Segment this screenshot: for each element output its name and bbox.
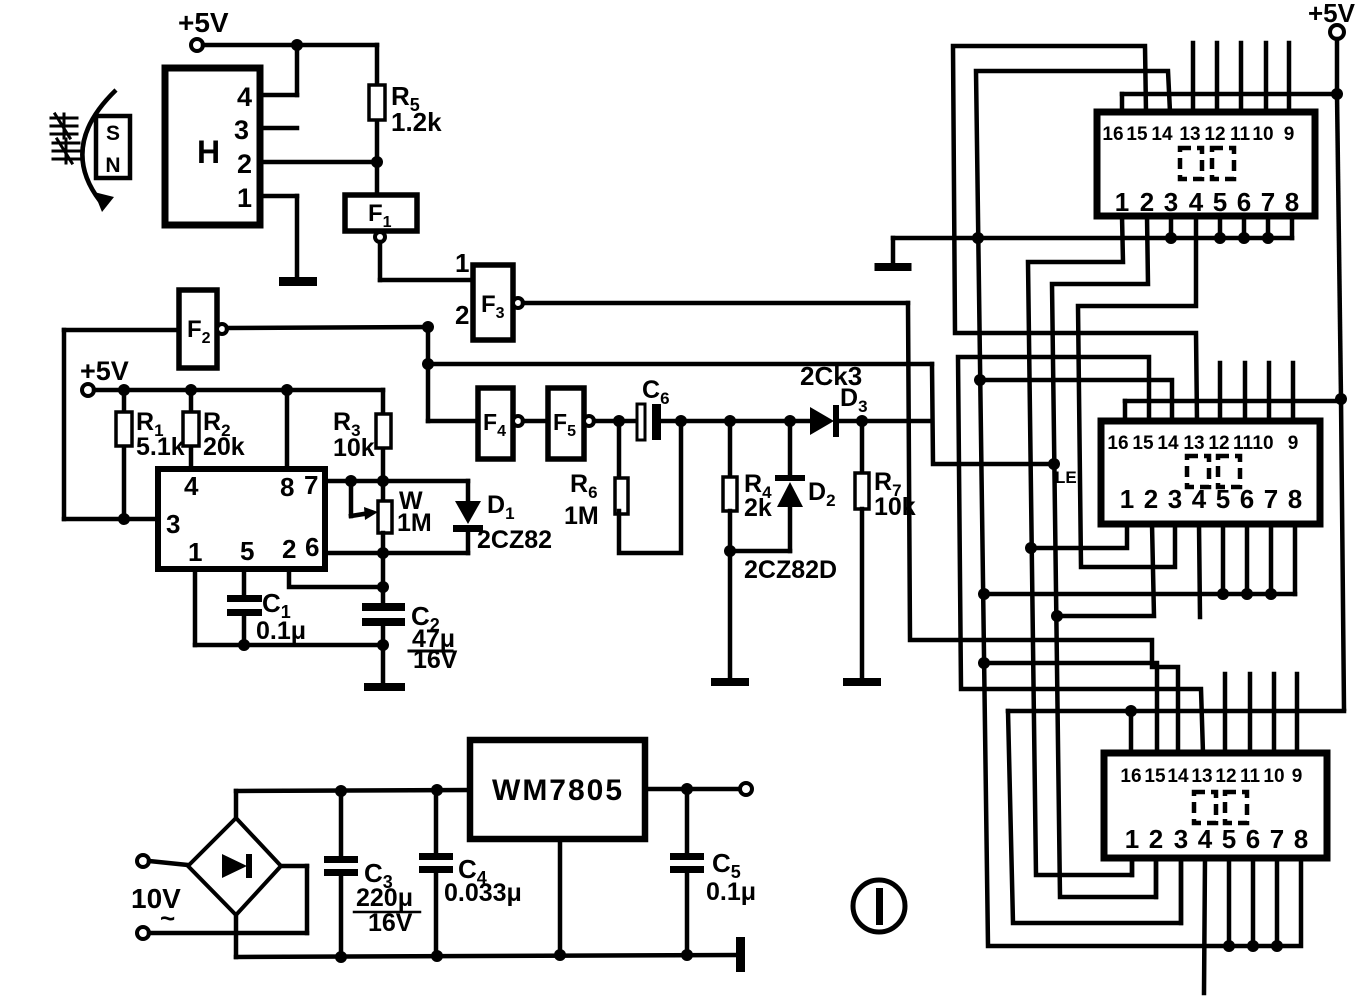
svg-text:1M: 1M: [397, 509, 432, 537]
svg-text:1: 1: [188, 537, 202, 567]
svg-text:16V: 16V: [413, 646, 458, 674]
svg-text:8: 8: [1288, 484, 1302, 514]
svg-text:2CZ82: 2CZ82: [477, 526, 552, 554]
svg-text:7: 7: [1264, 484, 1278, 514]
svg-text:10k: 10k: [333, 434, 375, 462]
svg-text:16V: 16V: [368, 909, 413, 937]
svg-text:12: 12: [1215, 766, 1236, 787]
svg-text:6: 6: [1246, 824, 1260, 854]
svg-text:1M: 1M: [564, 502, 599, 530]
svg-text:5: 5: [1213, 187, 1227, 217]
svg-text:7: 7: [1261, 187, 1275, 217]
svg-text:11: 11: [1230, 124, 1251, 145]
svg-text:4: 4: [1198, 824, 1213, 854]
svg-text:15: 15: [1144, 766, 1166, 787]
svg-text:14: 14: [1151, 124, 1173, 145]
svg-text:14: 14: [1157, 433, 1179, 454]
svg-text:+5V: +5V: [80, 356, 129, 386]
svg-text:1: 1: [1125, 824, 1139, 854]
svg-text:1.2k: 1.2k: [391, 107, 442, 137]
svg-text:3: 3: [1174, 824, 1188, 854]
svg-text:2CZ82D: 2CZ82D: [744, 556, 837, 584]
svg-text:7: 7: [304, 470, 318, 500]
svg-text:2k: 2k: [744, 494, 772, 522]
svg-text:3: 3: [1168, 484, 1182, 514]
svg-text:10: 10: [1252, 433, 1273, 454]
svg-text:10: 10: [1252, 124, 1273, 145]
svg-text:8: 8: [1285, 187, 1299, 217]
svg-text:N: N: [105, 154, 120, 177]
svg-text:10: 10: [1263, 766, 1284, 787]
svg-text:0.1μ: 0.1μ: [706, 878, 756, 906]
svg-text:4: 4: [1189, 187, 1204, 217]
svg-text:2: 2: [1140, 187, 1154, 217]
svg-text:+5V: +5V: [1308, 0, 1356, 28]
svg-text:2: 2: [1149, 824, 1163, 854]
svg-text:13: 13: [1183, 433, 1204, 454]
svg-text:2: 2: [237, 149, 252, 179]
svg-text:12: 12: [1208, 433, 1229, 454]
svg-text:4: 4: [184, 471, 199, 501]
svg-text:8: 8: [280, 472, 294, 502]
svg-text:13: 13: [1179, 124, 1200, 145]
svg-text:LE: LE: [1055, 468, 1077, 487]
svg-text:15: 15: [1132, 433, 1154, 454]
svg-text:8: 8: [1294, 824, 1308, 854]
svg-text:220μ: 220μ: [356, 884, 413, 912]
svg-text:+5V: +5V: [178, 7, 229, 38]
svg-text:2: 2: [282, 534, 296, 564]
svg-text:1: 1: [1120, 484, 1134, 514]
svg-text:~: ~: [160, 903, 175, 933]
svg-text:11: 11: [1240, 766, 1261, 787]
svg-text:12: 12: [1204, 124, 1225, 145]
svg-text:9: 9: [1284, 124, 1295, 145]
svg-text:1: 1: [455, 248, 469, 278]
svg-text:5.1k: 5.1k: [136, 433, 185, 461]
svg-text:2: 2: [455, 300, 469, 330]
svg-text:4: 4: [237, 82, 252, 112]
svg-text:2: 2: [1144, 484, 1158, 514]
svg-text:H: H: [197, 134, 220, 170]
svg-text:3: 3: [234, 115, 249, 145]
svg-text:15: 15: [1126, 124, 1148, 145]
svg-text:16: 16: [1120, 766, 1141, 787]
svg-text:16: 16: [1102, 124, 1123, 145]
svg-text:9: 9: [1288, 433, 1299, 454]
svg-text:6: 6: [305, 532, 319, 562]
svg-text:3: 3: [166, 509, 180, 539]
svg-text:7: 7: [1270, 824, 1284, 854]
svg-text:6: 6: [1237, 187, 1251, 217]
svg-text:11: 11: [1233, 433, 1254, 454]
svg-text:16: 16: [1107, 433, 1128, 454]
svg-text:S: S: [106, 122, 120, 145]
svg-text:WM7805: WM7805: [492, 774, 624, 807]
svg-text:14: 14: [1167, 766, 1189, 787]
svg-text:1: 1: [1115, 187, 1129, 217]
svg-text:13: 13: [1191, 766, 1212, 787]
svg-text:0.1μ: 0.1μ: [256, 617, 306, 645]
svg-text:3: 3: [1164, 187, 1178, 217]
svg-text:1: 1: [237, 183, 252, 213]
svg-text:9: 9: [1292, 766, 1303, 787]
svg-text:5: 5: [240, 536, 254, 566]
svg-text:5: 5: [1222, 824, 1236, 854]
svg-text:20k: 20k: [203, 433, 245, 461]
svg-text:0.033μ: 0.033μ: [444, 879, 522, 907]
